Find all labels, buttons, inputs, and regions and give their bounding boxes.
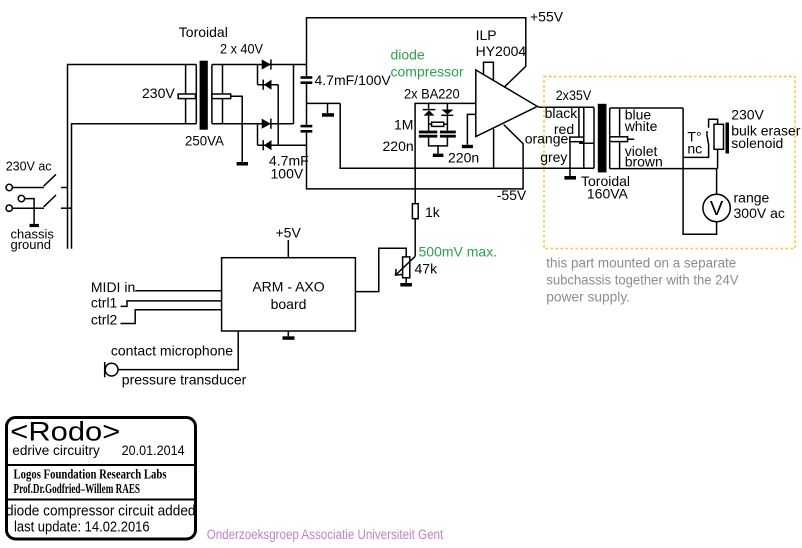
svg-text:this part mounted on a separat: this part mounted on a separate <box>546 256 736 271</box>
svg-text:ctrl1: ctrl1 <box>91 295 118 311</box>
svg-text:solenoid: solenoid <box>731 135 783 151</box>
transformer T2 secondary winding upper (blue/white) <box>610 108 620 136</box>
ground centre tap <box>237 162 248 166</box>
wire secondary top (blue) <box>610 107 683 109</box>
svg-text:MIDI in: MIDI in <box>91 279 135 295</box>
svg-text:1k: 1k <box>425 204 441 220</box>
svg-text:+5V: +5V <box>276 225 302 241</box>
wire <box>61 187 68 189</box>
wire <box>12 187 44 189</box>
svg-text:Toroidal: Toroidal <box>179 24 228 40</box>
transformer T1 primary 230V plate <box>178 94 195 99</box>
potentiometer P1 47k body <box>403 257 410 278</box>
wire thermal switch feed <box>683 147 709 158</box>
wire mains rail B <box>72 124 197 249</box>
wire <box>61 207 72 209</box>
wire op-amp to middle rail <box>493 129 495 168</box>
ground C5 <box>462 145 473 148</box>
transformer T2 core <box>598 104 607 173</box>
wire <box>437 146 439 154</box>
solenoid L1 core bar <box>726 123 730 154</box>
node 230V ac input terminal 1 <box>6 184 12 190</box>
transformer T2 secondary winding lower (violet/brown) <box>610 143 620 169</box>
wire secondary bottom (brown) <box>610 168 718 170</box>
op-amp U1 ILP HY2004 <box>476 70 538 137</box>
svg-text:100V: 100V <box>271 166 304 182</box>
wire op-amp output (black) <box>537 105 594 108</box>
transformer T2 primary tap plate (red/orange) <box>570 137 584 142</box>
wire secondary top <box>212 64 307 66</box>
diode D1 <box>262 59 271 69</box>
wire <box>327 103 329 113</box>
wire voltmeter loop left <box>683 108 717 234</box>
svg-text:contact microphone: contact microphone <box>111 342 233 358</box>
board U2 ARM-AXO <box>222 258 356 331</box>
title block frame <box>7 418 196 540</box>
wire ctrl2 <box>121 310 222 324</box>
wire <box>293 65 295 124</box>
capacitor C2 4.7mF 100V <box>301 125 313 133</box>
ground P1 <box>400 283 412 287</box>
wire <box>306 84 308 125</box>
transformer T1 secondary winding <box>211 65 213 124</box>
ground U2 <box>283 336 295 340</box>
svg-text:Onderzoeksgroep Associatie Uni: Onderzoeksgroep Associatie Universiteit … <box>207 527 444 542</box>
svg-text:V: V <box>710 198 724 220</box>
transformer T2 primary winding (black/red) <box>579 107 594 168</box>
ground compressor <box>433 154 444 157</box>
transformer T2 secondary tap plate <box>610 137 635 142</box>
wire MIDI in <box>135 290 221 292</box>
svg-text:pressure transducer: pressure transducer <box>122 372 247 388</box>
transformer T1 secondary centre-tap plate <box>212 94 231 99</box>
node 230V ac input terminal 2 <box>6 205 12 211</box>
svg-text:300V ac: 300V ac <box>734 205 785 221</box>
svg-text:220n: 220n <box>448 149 479 165</box>
svg-text:230V: 230V <box>731 107 764 123</box>
wire ground tap <box>307 102 341 104</box>
switch S3 thermal blade <box>707 134 709 147</box>
node S3 contact dot <box>706 132 708 134</box>
capacitor C1 4.7mF/100V <box>301 76 313 84</box>
wire <box>428 116 430 131</box>
ground chassis <box>30 224 39 227</box>
svg-text:Prof.Dr.Godfried–Willem RAES: Prof.Dr.Godfried–Willem RAES <box>14 482 141 497</box>
ground supply middle <box>322 113 334 117</box>
wire centre tap <box>231 96 243 162</box>
ground T2 tap <box>564 176 576 180</box>
switch S1 blade <box>44 174 56 186</box>
transformer T2 primary winding (orange/grey) <box>580 142 594 169</box>
svg-text:500mV max.: 500mV max. <box>419 243 498 259</box>
wire mains rail A <box>68 65 197 249</box>
transformer T1 primary winding <box>185 65 187 124</box>
diode D3 <box>262 119 271 129</box>
capacitor C5 220n to ground <box>467 114 475 144</box>
node earth terminal <box>18 195 24 201</box>
wire <box>258 84 279 86</box>
svg-text:ground: ground <box>11 237 51 252</box>
svg-text:board: board <box>271 296 307 312</box>
svg-text:-55V: -55V <box>497 187 527 203</box>
resistor R1 1k <box>412 168 418 256</box>
svg-text:230V ac: 230V ac <box>6 160 52 174</box>
svg-text:brown: brown <box>625 153 663 169</box>
svg-text:nc: nc <box>687 141 702 157</box>
svg-text:orange: orange <box>525 130 569 146</box>
potentiometer P1 wiper arrow <box>396 256 416 275</box>
wire +5V <box>287 240 289 258</box>
svg-text:last update: 14.02.2016: last update: 14.02.2016 <box>14 518 150 535</box>
wire <box>716 169 718 195</box>
wire ctrl1 <box>121 301 222 307</box>
diode D4 <box>263 140 271 150</box>
svg-text:subchassis together with the 2: subchassis together with the 24V <box>546 273 739 288</box>
svg-text:220n: 220n <box>383 138 414 154</box>
wire <box>405 278 407 283</box>
svg-text:HY2004: HY2004 <box>476 43 527 59</box>
svg-text:ILP: ILP <box>476 27 497 43</box>
wire <box>428 103 430 109</box>
wire <box>446 103 448 109</box>
svg-text:power supply.: power supply. <box>546 290 630 305</box>
svg-text:ctrl2: ctrl2 <box>91 312 118 328</box>
svg-text:compressor: compressor <box>391 64 464 80</box>
diode D2 <box>263 80 271 90</box>
resistor R2 1M <box>429 122 448 126</box>
svg-text:range: range <box>734 190 770 206</box>
wire negative rail -55V <box>307 125 524 189</box>
diode D5 BA220 <box>423 110 436 116</box>
frame subchassis (yellow dashed) <box>544 77 795 249</box>
transformer T1 core <box>200 61 208 130</box>
wire microphone to board <box>118 331 238 370</box>
svg-text:160VA: 160VA <box>587 185 629 201</box>
svg-text:2 x 40V: 2 x 40V <box>220 41 264 57</box>
svg-text:250VA: 250VA <box>185 133 224 149</box>
note subchassis (grey) <box>546 256 739 305</box>
svg-text:2x35V: 2x35V <box>556 87 592 103</box>
svg-text:black: black <box>545 105 579 121</box>
wire <box>446 115 448 130</box>
svg-text:diode compressor circuit added: diode compressor circuit added <box>6 502 196 519</box>
svg-text:20.01.2014: 20.01.2014 <box>122 442 185 458</box>
wire <box>258 144 307 146</box>
switch S2 blade <box>44 195 56 207</box>
svg-text:4.7mF/100V: 4.7mF/100V <box>315 72 392 88</box>
solenoid L1 body <box>714 124 724 149</box>
wire <box>287 331 289 336</box>
voltmeter M1 <box>703 194 730 221</box>
svg-text:1M: 1M <box>394 117 413 133</box>
wire S3 fixed contact <box>709 119 718 128</box>
wire <box>717 149 719 168</box>
svg-text:47k: 47k <box>415 261 439 277</box>
wire positive rail +55V <box>307 18 526 87</box>
capacitor C3 220n <box>419 131 438 138</box>
wire middle rail 0V <box>340 103 594 168</box>
svg-text:Logos Foundation Research Labs: Logos Foundation Research Labs <box>14 467 167 482</box>
svg-text:230V: 230V <box>142 85 175 101</box>
op-amp U1 tab <box>484 62 494 81</box>
microphone MIC1 <box>105 362 118 377</box>
svg-text:diode: diode <box>391 47 425 63</box>
wire audio out to pot <box>355 248 406 291</box>
svg-text:2x BA220: 2x BA220 <box>404 86 460 102</box>
wire <box>257 124 259 146</box>
svg-text:edrive circuitry: edrive circuitry <box>12 442 100 458</box>
wire <box>429 138 448 146</box>
diode D6 BA220 <box>441 110 453 116</box>
svg-text:+55V: +55V <box>530 8 564 24</box>
wire <box>25 199 34 224</box>
svg-text:white: white <box>624 118 658 134</box>
svg-text:ARM - AXO: ARM - AXO <box>252 279 324 295</box>
svg-text:grey: grey <box>540 149 567 165</box>
wire tap to ground <box>569 142 571 176</box>
capacitor C4 220n <box>440 131 456 138</box>
wire secondary bottom <box>212 123 294 125</box>
wire <box>257 65 259 85</box>
wire <box>277 85 279 146</box>
wire <box>12 207 44 209</box>
wire compressor box top / op-amp +input <box>415 103 476 168</box>
